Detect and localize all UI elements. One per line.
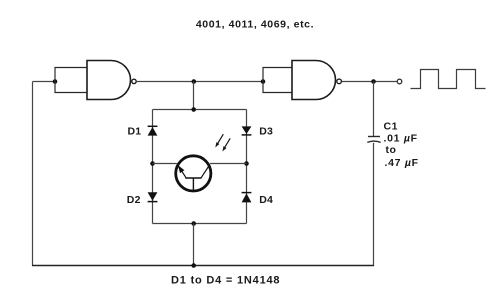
wire: emitter connection (left mid to Q1) (153, 163, 177, 165)
wire: U1a input tie bar and stubs (55, 67, 88, 93)
output bubble U1b (337, 79, 342, 84)
junction: bridge left mid (150, 161, 155, 166)
NAND gate U1a (87, 61, 136, 100)
junction: bottom rail tap (191, 263, 196, 268)
svg-text:C1: C1 (384, 121, 399, 133)
wire: bridge top rail (153, 109, 247, 111)
svg-text:D1: D1 (128, 125, 142, 137)
junction: bridge right mid (244, 161, 249, 166)
junction: bridge top center (191, 107, 196, 112)
wire: C1 top lead (373, 82, 375, 137)
junction: U1b input tie (261, 79, 266, 84)
output bubble U1a (132, 79, 136, 83)
svg-text:.01 µF: .01 µF (384, 132, 418, 144)
wire: bottom rail (32, 265, 374, 267)
diode D3 (cathode down) (242, 126, 252, 134)
svg-text:D1 to D4 = 1N4148: D1 to D4 = 1N4148 (171, 274, 280, 286)
diode D1 (cathode up) (148, 126, 158, 135)
wire: bridge bottom drop to rail (193, 224, 195, 266)
diode D4 (cathode up) (242, 193, 252, 203)
square wave output symbol (411, 70, 486, 89)
wire: U1a output to U1b input (137, 81, 263, 83)
phototransistor Q1 (176, 156, 211, 192)
junction: node at bridge drop (192, 79, 197, 84)
svg-text:to: to (386, 144, 397, 156)
svg-text:D4: D4 (259, 194, 273, 206)
svg-text:4001, 4011, 4069, etc.: 4001, 4011, 4069, etc. (196, 19, 314, 31)
wire: U1b input tie bar and stubs (263, 67, 293, 93)
svg-text:D3: D3 (259, 125, 273, 137)
wire: feedback left vertical rail (32, 82, 34, 266)
wire: C1 bottom lead (373, 143, 375, 265)
wire: bridge bottom rail (153, 223, 247, 225)
NAND gate U1b (292, 61, 341, 100)
wire: bridge left side (152, 110, 154, 224)
light arrows into Q1 (215, 134, 230, 151)
wire: U1b output to terminal (342, 81, 397, 83)
wire: U1a input from left rail (33, 81, 56, 83)
svg-text:.47 µF: .47 µF (385, 157, 419, 169)
wire: bridge right side (246, 110, 248, 224)
junction: output node to C1 (371, 79, 376, 84)
junction: bridge bottom center (191, 221, 196, 226)
output terminal (open circle) (397, 79, 402, 84)
wire: collector connection (Q1 to right mid) (210, 163, 247, 165)
svg-text:D2: D2 (127, 194, 141, 206)
wire: drop from output node to bridge top (193, 82, 195, 110)
capacitor C1 (367, 137, 380, 143)
diode D2 (cathode down) (148, 192, 158, 201)
junction: U1a input tie (53, 79, 58, 84)
